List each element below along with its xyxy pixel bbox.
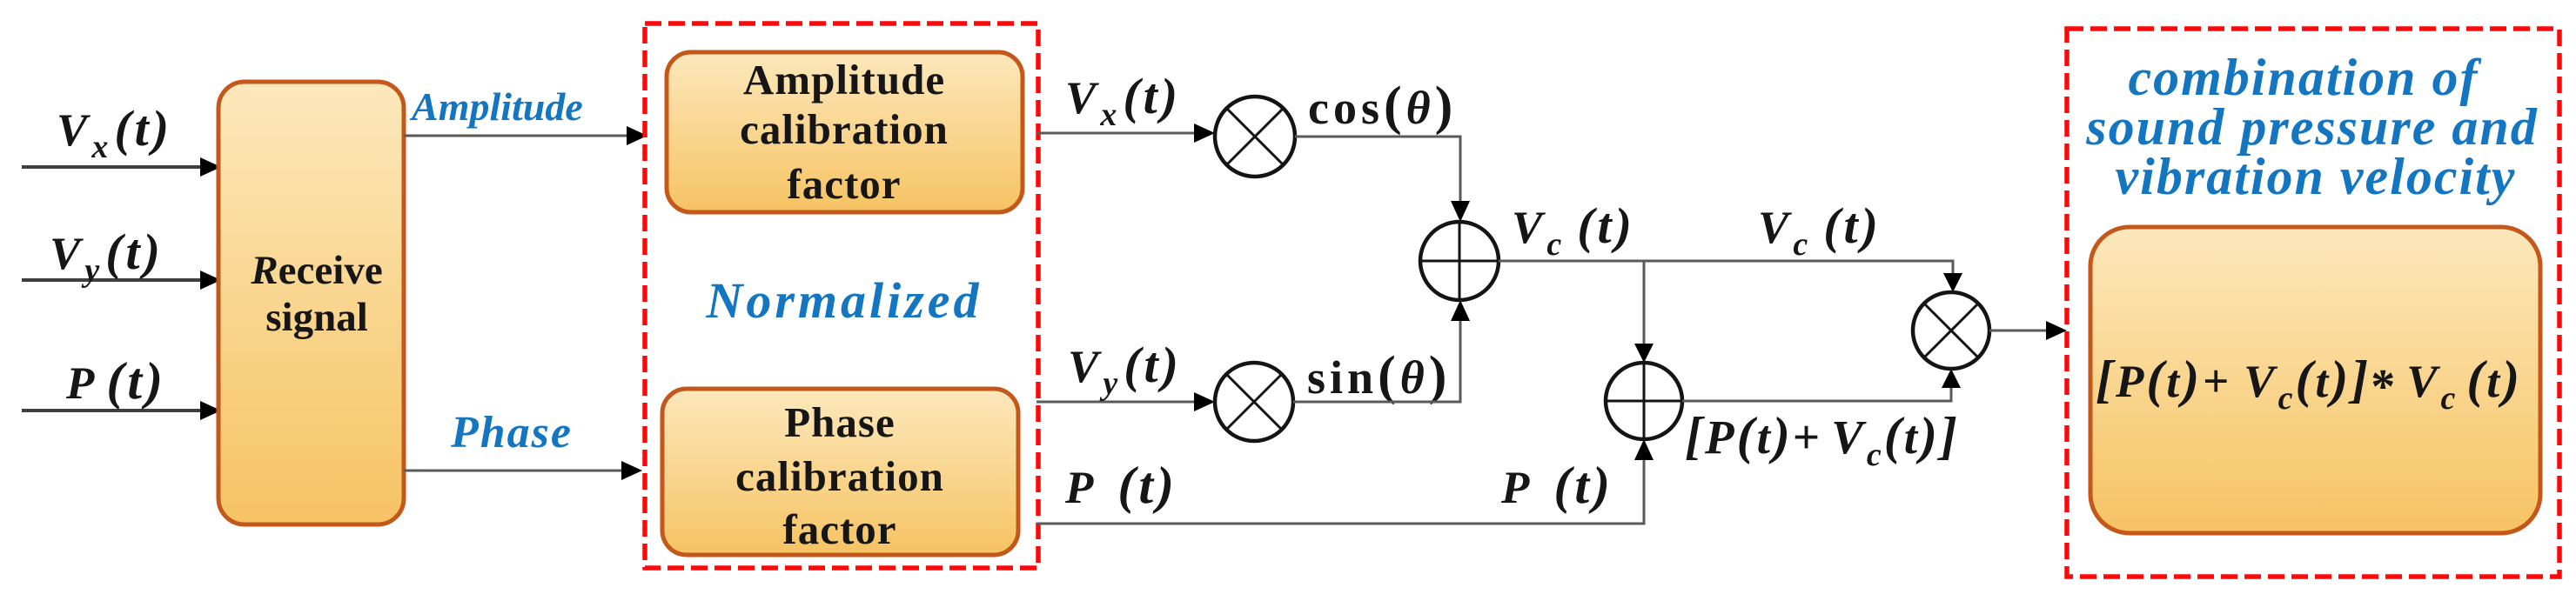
svg-text:Amplitude: Amplitude [743,56,945,104]
svg-text:cos(θ): cos(θ) [1308,77,1457,136]
svg-text:sin(θ): sin(θ) [1307,346,1451,405]
svg-text:P(t): P(t) [1500,457,1613,514]
svg-text:signal: signal [265,295,368,340]
svg-text:vibration velocity: vibration velocity [2116,148,2517,205]
svg-text:calibration: calibration [735,452,944,500]
svg-text:Phase: Phase [450,408,573,457]
svg-text:Vx(t): Vx(t) [1065,68,1181,133]
svg-text:P(t): P(t) [65,352,166,410]
svg-text:calibration: calibration [740,105,949,153]
svg-text:Vx(t): Vx(t) [57,100,172,165]
svg-text:Amplitude: Amplitude [409,84,583,129]
svg-text:factor: factor [787,160,901,208]
svg-text:Vy(t): Vy(t) [1068,337,1182,402]
svg-text:Phase: Phase [784,398,896,446]
svg-text:Normalized: Normalized [705,272,982,329]
svg-text:Vy(t): Vy(t) [50,224,164,289]
svg-text:Receive: Receive [250,248,382,293]
svg-text:P(t): P(t) [1064,457,1177,514]
svg-text:factor: factor [782,505,896,553]
svg-text:[P(t)+Vc(t)]: [P(t)+Vc(t)] [1685,407,1960,473]
